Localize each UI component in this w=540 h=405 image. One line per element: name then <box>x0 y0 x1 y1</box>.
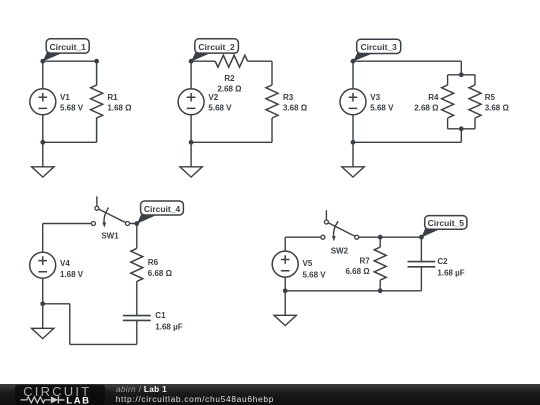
svg-text:R5: R5 <box>485 93 496 102</box>
svg-text:R7: R7 <box>359 257 370 266</box>
svg-text:2.68 Ω: 2.68 Ω <box>414 104 439 113</box>
svg-text:abirn / Lab 1: abirn / Lab 1 <box>116 385 167 394</box>
svg-text:3.68 Ω: 3.68 Ω <box>485 104 510 113</box>
svg-text:http://circuitlab.com/chu548au: http://circuitlab.com/chu548au6hebp <box>116 394 274 404</box>
svg-text:SW1: SW1 <box>101 232 119 241</box>
svg-text:Circuit_2: Circuit_2 <box>198 42 235 52</box>
svg-text:5.68 V: 5.68 V <box>303 270 327 279</box>
svg-text:SW2: SW2 <box>331 247 349 256</box>
svg-text:V3: V3 <box>370 93 380 102</box>
svg-text:V1: V1 <box>60 93 70 102</box>
svg-text:5.68 V: 5.68 V <box>208 104 232 113</box>
svg-text:R2: R2 <box>224 74 235 83</box>
svg-text:6.68 Ω: 6.68 Ω <box>148 269 173 278</box>
svg-text:5.68 V: 5.68 V <box>370 104 394 113</box>
svg-text:1.68 µF: 1.68 µF <box>437 268 464 277</box>
svg-text:V4: V4 <box>60 259 70 268</box>
svg-text:C2: C2 <box>437 257 448 266</box>
svg-text:C1: C1 <box>155 311 166 320</box>
svg-text:Circuit_5: Circuit_5 <box>428 218 465 228</box>
svg-text:Circuit_1: Circuit_1 <box>50 42 87 52</box>
svg-text:2.68 Ω: 2.68 Ω <box>217 84 242 93</box>
svg-text:LAB: LAB <box>66 395 90 405</box>
svg-text:V2: V2 <box>208 93 218 102</box>
svg-text:V5: V5 <box>303 259 313 268</box>
svg-text:R4: R4 <box>428 93 439 102</box>
svg-text:5.68 V: 5.68 V <box>60 104 84 113</box>
svg-text:6.68 Ω: 6.68 Ω <box>345 267 370 276</box>
svg-text:R6: R6 <box>148 258 159 267</box>
svg-text:1.68 µF: 1.68 µF <box>155 323 182 332</box>
svg-text:Circuit_3: Circuit_3 <box>361 42 398 52</box>
svg-text:R1: R1 <box>107 93 118 102</box>
svg-text:1.68 Ω: 1.68 Ω <box>107 104 132 113</box>
svg-text:R3: R3 <box>283 93 294 102</box>
svg-text:3.68 Ω: 3.68 Ω <box>283 104 308 113</box>
svg-text:1.68 V: 1.68 V <box>60 270 84 279</box>
svg-text:Circuit_4: Circuit_4 <box>144 204 181 214</box>
